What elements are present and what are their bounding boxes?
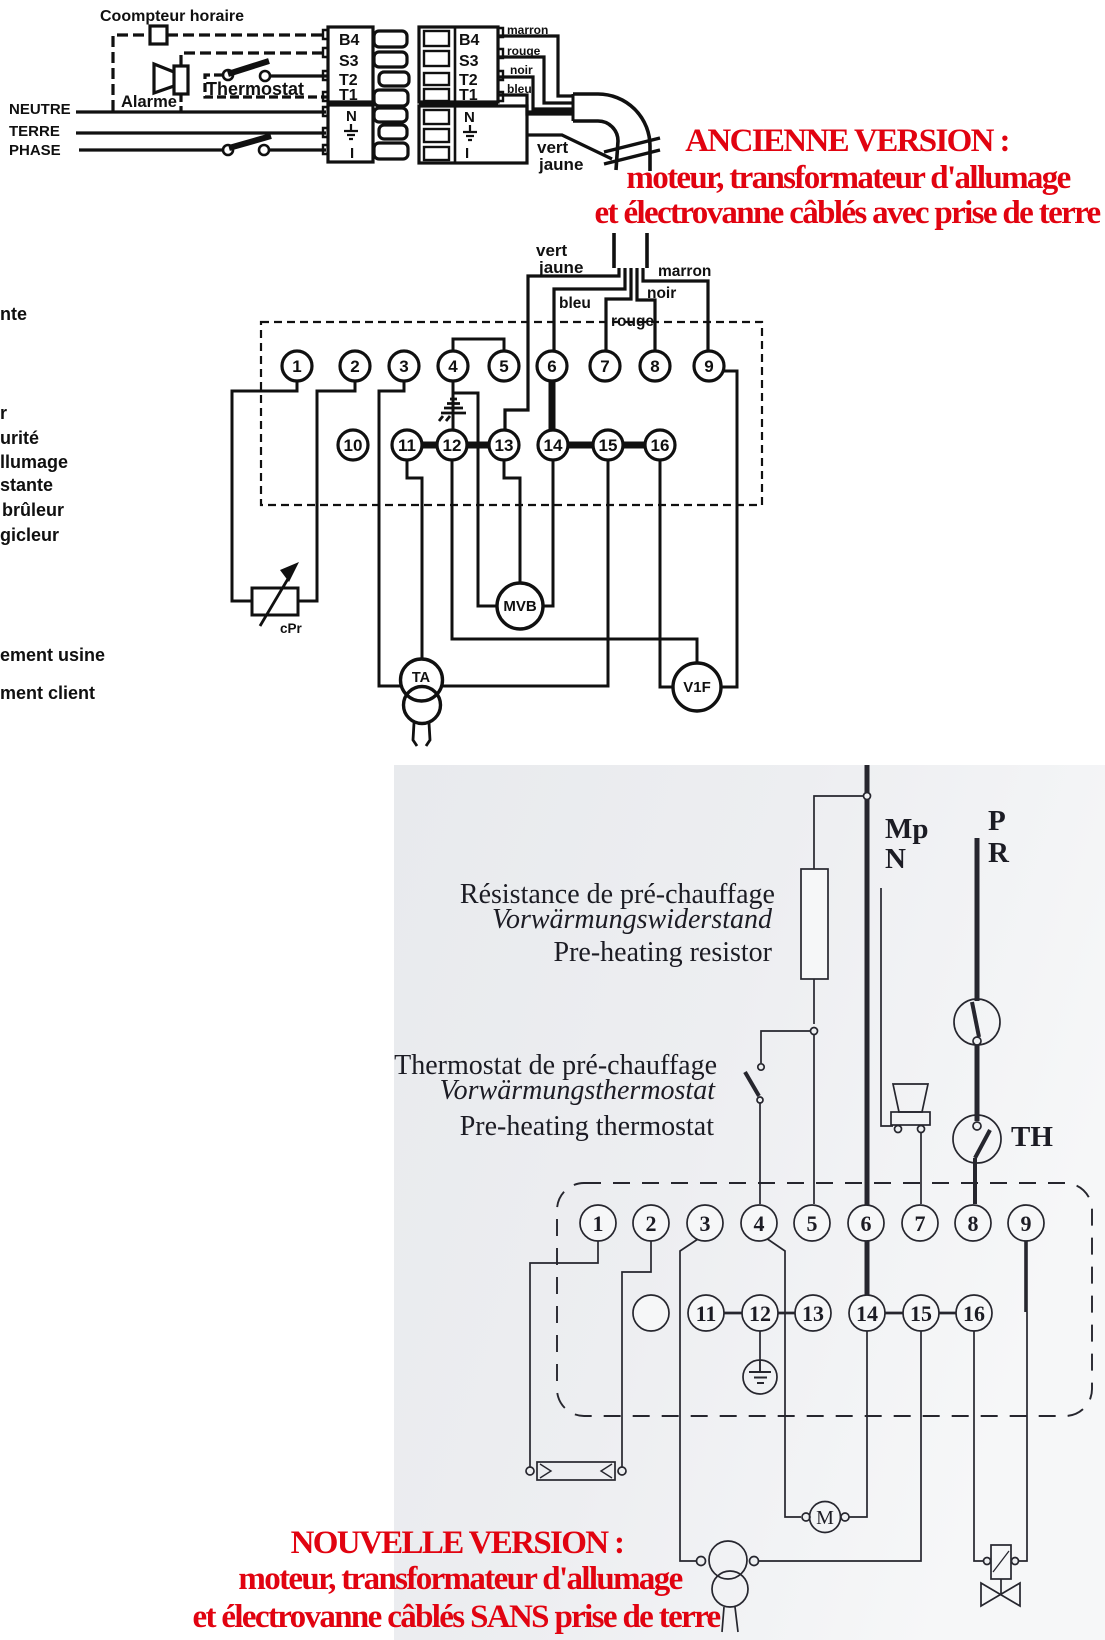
- thermostat lower contact: [757, 1097, 763, 1103]
- terminal b12: [742, 1295, 778, 1331]
- svg-text:stante: stante: [0, 475, 53, 495]
- block2 earth symbol: [463, 125, 477, 140]
- igniter trapezoid: [893, 1084, 928, 1112]
- wire 16 to valve left: [974, 1331, 983, 1561]
- wire switch to terminal 4: [759, 1103, 761, 1204]
- terminal 14: [538, 430, 568, 460]
- igniter pin left: [895, 1126, 902, 1133]
- terminal 1: [282, 351, 312, 381]
- svg-text:16: 16: [963, 1301, 985, 1326]
- heater chevrons: [540, 1464, 612, 1478]
- svg-text:N: N: [885, 843, 906, 875]
- wire 11 to TA top: [407, 460, 422, 662]
- resistor cPr: [252, 588, 298, 615]
- terminal 8: [640, 351, 670, 381]
- svg-text:3: 3: [700, 1211, 711, 1236]
- link 14-15: [885, 1312, 903, 1315]
- cable mouth edge: [572, 94, 575, 121]
- earth symbol above 12: [439, 399, 466, 421]
- terminal 10: [338, 430, 368, 460]
- earth circle: [743, 1360, 777, 1394]
- node on neutral line: [864, 793, 871, 800]
- wire resistor to node2: [813, 979, 815, 1024]
- wire marron to 9: [643, 268, 708, 351]
- svg-text:4: 4: [448, 357, 458, 376]
- svg-text:9: 9: [704, 357, 713, 376]
- upper switch circle: [954, 999, 1000, 1045]
- terminal b9: [1008, 1205, 1044, 1241]
- svg-text:8: 8: [968, 1211, 979, 1236]
- block1 tab earth: [379, 125, 407, 139]
- block1 tab I: [374, 143, 408, 159]
- thick link 11-12: [421, 442, 438, 449]
- svg-text:M: M: [816, 1507, 834, 1529]
- wire marron from B4: [498, 36, 572, 96]
- wire bleu from T1: [498, 95, 572, 114]
- svg-text:llumage: llumage: [0, 452, 68, 472]
- phase switch contact left: [223, 145, 233, 155]
- svg-text:urité: urité: [0, 428, 39, 448]
- svg-text:9: 9: [1021, 1211, 1032, 1236]
- svg-text:S3: S3: [339, 53, 359, 70]
- block2 sockets upper: [424, 31, 449, 46]
- transformer prongs: [722, 1607, 738, 1632]
- wire 13 to MVB top: [504, 460, 520, 583]
- cable break mark 2: [604, 150, 660, 164]
- connector block1 upper body: [328, 27, 373, 102]
- cPr arrow: [260, 572, 292, 626]
- heater element rect: [537, 1462, 615, 1480]
- TH contact: [973, 1122, 981, 1130]
- terminal b14: [849, 1295, 885, 1331]
- terminal b15: [903, 1295, 939, 1331]
- wire S3 line from alarm: [181, 53, 328, 66]
- svg-text:jaune: jaune: [538, 155, 583, 174]
- terminal b3: [687, 1205, 723, 1241]
- terminal b4: [741, 1205, 777, 1241]
- wire motor to 14: [849, 1331, 867, 1517]
- terminal 16: [645, 430, 675, 460]
- terminal 9: [694, 351, 724, 381]
- svg-text:TH: TH: [1011, 1121, 1053, 1153]
- svg-text:R: R: [988, 837, 1010, 869]
- wire 3 to transformer: [680, 1239, 698, 1561]
- block1 upper left notches: [323, 30, 328, 101]
- svg-text:gicleur: gicleur: [0, 525, 59, 545]
- terminal 7: [590, 351, 620, 381]
- valve stem: [1000, 1579, 1002, 1595]
- svg-text:r: r: [0, 403, 7, 423]
- thick line to TH: [975, 1045, 980, 1121]
- cable lower segment right: [645, 233, 649, 268]
- wire N row to cable: [527, 110, 572, 113]
- link 11-12: [724, 1312, 742, 1315]
- wire 16 to V1F left: [660, 460, 673, 687]
- svg-text:N: N: [464, 109, 475, 126]
- svg-text:bleu: bleu: [559, 295, 591, 312]
- wire phase to connector: [269, 148, 326, 151]
- svg-text:TA: TA: [412, 670, 431, 686]
- svg-text:cPr: cPr: [280, 621, 303, 636]
- svg-text:bleu: bleu: [507, 82, 532, 96]
- svg-text:Mp: Mp: [885, 813, 929, 845]
- ignition transformer secondary: [712, 1571, 748, 1607]
- terminal 13: [489, 430, 519, 460]
- wire 9 to valve right: [1019, 1312, 1027, 1561]
- cable sheath inner bend: [573, 121, 618, 170]
- svg-text:Pre-heating thermostat: Pre-heating thermostat: [460, 1111, 714, 1142]
- block1 tab T1: [374, 90, 408, 106]
- thermostat contact: [758, 1064, 764, 1070]
- svg-text:6: 6: [547, 357, 556, 376]
- svg-text:2: 2: [350, 357, 359, 376]
- svg-text:noir: noir: [510, 63, 533, 77]
- wire neutre: [76, 110, 326, 113]
- wire noir to 8: [637, 268, 655, 351]
- svg-text:ment client: ment client: [0, 683, 95, 703]
- svg-text:nte: nte: [0, 304, 27, 324]
- valve pin right: [1012, 1558, 1019, 1565]
- svg-text:B4: B4: [339, 32, 360, 49]
- terminal b13: [795, 1295, 831, 1331]
- svg-text:brûleur: brûleur: [2, 500, 64, 520]
- phase switch contact right: [259, 145, 269, 155]
- pre-heating resistor rect: [801, 869, 828, 979]
- wire 12 to earth: [759, 1331, 761, 1360]
- svg-text:NOUVELLE VERSION :: NOUVELLE VERSION :: [291, 1525, 624, 1561]
- thermostat switch blade: [228, 61, 269, 74]
- hour counter: [150, 26, 167, 44]
- terminal b5: [794, 1205, 830, 1241]
- svg-text:Thermostat: Thermostat: [206, 79, 304, 99]
- svg-text:et électrovanne câblés avec pr: et électrovanne câblés avec prise de ter…: [595, 195, 1101, 231]
- terminal 6: [537, 351, 567, 381]
- solenoid diagonal: [993, 1551, 1009, 1572]
- terminal b11: [688, 1295, 724, 1331]
- terminal b7: [902, 1205, 938, 1241]
- svg-text:5: 5: [807, 1211, 818, 1236]
- block2 right notches: [498, 28, 503, 101]
- thick link 6-14: [549, 380, 556, 431]
- jumper wire 4-5: [453, 339, 504, 351]
- heater pin left: [526, 1467, 534, 1475]
- heater pin right: [618, 1467, 626, 1475]
- svg-text:1: 1: [593, 1211, 604, 1236]
- svg-text:13: 13: [495, 436, 514, 455]
- valve pin left: [984, 1558, 991, 1565]
- wire 4 to 12: [452, 381, 455, 430]
- cable lower segment left: [612, 233, 616, 268]
- svg-text:et électrovanne câblés SANS pr: et électrovanne câblés SANS prise de ter…: [192, 1599, 720, 1635]
- wire 12 to V1F top: [452, 460, 697, 663]
- thick neutral line Mp N: [865, 765, 870, 1206]
- terminal 2: [340, 351, 370, 381]
- wire bleu to 6: [554, 268, 625, 351]
- svg-text:3: 3: [399, 357, 408, 376]
- svg-text:N: N: [346, 108, 357, 125]
- terminal 4: [438, 351, 468, 381]
- thick link 14-15: [567, 442, 594, 449]
- svg-text:moteur, transformateur d'allum: moteur, transformateur d'allumage: [238, 1561, 682, 1597]
- wire junction 4 to MVB left: [453, 393, 497, 606]
- svg-text:Coompteur horaire: Coompteur horaire: [100, 8, 244, 25]
- transformer TA secondary: [404, 687, 441, 724]
- svg-text:8: 8: [650, 357, 659, 376]
- transformer pin left: [697, 1557, 706, 1566]
- wire 1 to cPr: [232, 381, 297, 601]
- wire terre: [76, 131, 326, 134]
- terminal b2: [633, 1205, 669, 1241]
- svg-text:10: 10: [344, 436, 363, 455]
- svg-text:16: 16: [651, 436, 670, 455]
- svg-text:NEUTRE: NEUTRE: [9, 101, 71, 118]
- terminal b10 blank: [633, 1295, 669, 1331]
- connector block2 upper body: [419, 27, 498, 102]
- block2 lower divider: [454, 106, 457, 163]
- svg-text:11: 11: [398, 436, 416, 455]
- svg-text:1: 1: [292, 357, 301, 376]
- motor MVB: [497, 583, 543, 629]
- solenoid coil rect: [991, 1545, 1011, 1579]
- wire node2 to terminal 5: [813, 1035, 815, 1204]
- block1 earth symbol: [344, 124, 358, 139]
- motor pin right: [841, 1513, 849, 1521]
- wire vert jaune from I row: [527, 135, 612, 159]
- thermostat switch contact right: [260, 71, 270, 81]
- svg-text:5: 5: [499, 357, 508, 376]
- svg-text:15: 15: [910, 1301, 932, 1326]
- svg-text:6: 6: [861, 1211, 872, 1236]
- terminal 5: [489, 351, 519, 381]
- svg-text:PHASE: PHASE: [9, 142, 61, 159]
- svg-text:B4: B4: [459, 32, 480, 49]
- neutral tap line: [881, 888, 893, 1126]
- transformer TA primary: [401, 659, 443, 701]
- upper switch contact: [973, 1037, 981, 1045]
- TH switch circle: [953, 1115, 1001, 1163]
- alarm horn Alarme: [154, 64, 174, 93]
- block1 lower left notches: [323, 107, 328, 154]
- svg-text:P: P: [988, 805, 1006, 837]
- wire rouge from S3: [498, 57, 572, 103]
- svg-text:V1F: V1F: [683, 679, 711, 696]
- thermostat blade: [745, 1072, 759, 1096]
- svg-text:4: 4: [754, 1211, 765, 1236]
- wire B4 line with counter loop: [113, 35, 328, 111]
- upper switch blade: [972, 1002, 979, 1037]
- dashed terminal box: [261, 322, 762, 505]
- svg-text:TERRE: TERRE: [9, 123, 60, 140]
- svg-text:15: 15: [599, 436, 618, 455]
- wire 2 to heater right: [622, 1241, 651, 1467]
- wire thermostat T1 loop: [205, 75, 328, 97]
- dashed terminal box rounded: [557, 1183, 1092, 1416]
- phase switch blade: [229, 136, 271, 148]
- wire thermostat T2: [270, 74, 328, 77]
- link 15-16: [939, 1312, 956, 1315]
- connector block1 lower body: [328, 105, 373, 162]
- igniter pin right: [918, 1126, 925, 1133]
- motor M: [810, 1502, 841, 1533]
- valve bowtie: [981, 1583, 1020, 1606]
- svg-text:Vorwärmungsthermostat: Vorwärmungsthermostat: [440, 1075, 717, 1106]
- wire vert jaune to 13: [505, 268, 619, 429]
- block1 tab B4: [374, 31, 407, 47]
- svg-text:Alarme: Alarme: [121, 93, 177, 111]
- block1 tab S3: [374, 52, 407, 67]
- svg-text:Vorwärmungswiderstand: Vorwärmungswiderstand: [492, 904, 773, 935]
- wire alarm to neutre: [179, 94, 182, 112]
- svg-text:12: 12: [443, 436, 462, 455]
- wire 1 to heater left: [530, 1241, 598, 1467]
- terminal 15: [593, 430, 623, 460]
- wire 4 to motor left: [766, 1238, 801, 1517]
- wire rouge to 7: [606, 268, 631, 351]
- link 12-13: [778, 1312, 795, 1315]
- svg-text:12: 12: [749, 1301, 771, 1326]
- thermostat switch contact left: [223, 70, 233, 80]
- wire 3 to TA left: [379, 381, 404, 686]
- svg-text:marron: marron: [507, 23, 548, 37]
- terminal 12: [437, 430, 467, 460]
- block1 tab T2: [379, 72, 409, 86]
- terminal b16: [956, 1295, 992, 1331]
- terminal b8: [955, 1205, 991, 1241]
- wire 9 to V1F right: [721, 371, 737, 687]
- wire phase to switch: [79, 148, 222, 151]
- wire 14 to MVB right: [543, 460, 553, 606]
- TH blade: [975, 1130, 990, 1158]
- terminal b1: [580, 1205, 616, 1241]
- block2 divider: [419, 102, 498, 107]
- wire igniter to terminal 7: [920, 1133, 922, 1204]
- svg-text:jaune: jaune: [538, 258, 583, 277]
- thick line TH to terminal 8: [973, 1158, 977, 1204]
- thick phase line P: [975, 838, 980, 1001]
- svg-text:T1: T1: [459, 87, 478, 104]
- thick link 12-13: [466, 442, 490, 449]
- block2 sockets lower: [424, 110, 449, 124]
- valve V1F: [673, 663, 721, 711]
- terminal 3: [389, 351, 419, 381]
- svg-text:2: 2: [646, 1211, 657, 1236]
- block2 socket column divider: [454, 27, 457, 102]
- thick link 6-14 bottom: [865, 1241, 870, 1296]
- connector block2 lower body: [419, 106, 527, 163]
- wire node2 to thermostat switch: [761, 1031, 810, 1063]
- svg-text:ANCIENNE VERSION :: ANCIENNE VERSION :: [685, 123, 1009, 159]
- TA output prongs: [413, 723, 430, 746]
- block1 divider: [328, 101, 373, 106]
- cable sheath top bend: [573, 94, 650, 171]
- igniter base: [891, 1112, 930, 1125]
- svg-text:marron: marron: [658, 263, 711, 280]
- svg-text:I: I: [465, 145, 469, 162]
- wire noir from T2: [498, 77, 572, 109]
- transformer pin right: [750, 1557, 759, 1566]
- thick link 15-16: [622, 442, 646, 449]
- motor pin left: [802, 1513, 810, 1521]
- svg-text:ement usine: ement usine: [0, 645, 105, 665]
- wire node to resistor: [814, 796, 863, 869]
- block1 tab N: [374, 108, 407, 122]
- wire 15 to TA right: [441, 460, 608, 686]
- wire 15 to transformer right: [759, 1331, 921, 1561]
- terminal 11: [392, 430, 422, 460]
- svg-text:I: I: [350, 145, 354, 162]
- svg-text:11: 11: [696, 1301, 717, 1326]
- svg-text:noir: noir: [647, 285, 676, 302]
- svg-text:MVB: MVB: [503, 598, 537, 615]
- thick stub below 9: [1024, 1241, 1028, 1312]
- ignition transformer primary: [709, 1541, 747, 1579]
- svg-text:S3: S3: [459, 53, 479, 70]
- svg-text:7: 7: [600, 357, 609, 376]
- svg-text:rouge: rouge: [507, 44, 541, 58]
- earth bars: [749, 1360, 771, 1383]
- svg-text:moteur, transformateur d'allum: moteur, transformateur d'allumage: [626, 160, 1070, 196]
- svg-text:7: 7: [915, 1211, 926, 1236]
- cable break mark 1: [604, 138, 660, 152]
- cPr arrow head: [280, 562, 299, 582]
- svg-text:Pre-heating resistor: Pre-heating resistor: [554, 937, 773, 968]
- wire 2 to cPr: [298, 381, 355, 601]
- svg-text:14: 14: [856, 1301, 878, 1326]
- svg-text:13: 13: [802, 1301, 824, 1326]
- node2: [811, 1028, 818, 1035]
- alarm coil: [174, 66, 188, 94]
- terminal b6: [848, 1205, 884, 1241]
- svg-text:14: 14: [544, 436, 563, 455]
